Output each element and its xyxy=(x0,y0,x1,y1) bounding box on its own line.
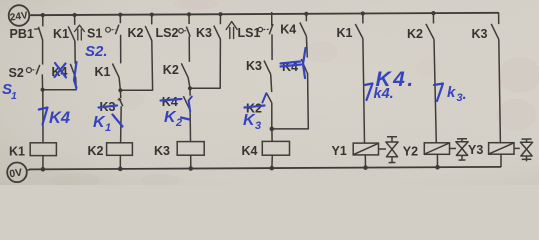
limit switch LS2 (NO) with actuator and label xyxy=(156,26,191,40)
svg-text:K4: K4 xyxy=(49,109,70,127)
relay contact K3 (crossed out, NC tick) with label xyxy=(100,90,123,114)
svg-text:S2.: S2. xyxy=(85,43,108,60)
relay contact K4 (crossed out) with label xyxy=(52,64,76,79)
node M2 (junction rung2 hold) xyxy=(118,88,122,92)
svg-text:LS2: LS2 xyxy=(156,26,179,40)
svg-text:K4: K4 xyxy=(162,95,178,109)
wire K2 coil to bottom rail xyxy=(119,155,121,168)
handwritten contact k4 (blue) in Y1 rung xyxy=(365,84,394,103)
wire Y2 solenoid to bottom rail xyxy=(436,154,438,167)
svg-text:K4: K4 xyxy=(242,144,258,158)
relay contact K4 (crossed out) in rung 3 with label xyxy=(162,88,190,110)
wire K3 coil to bottom rail xyxy=(190,155,192,168)
relay contact K3 (NO, self-hold) with label xyxy=(196,26,220,40)
blue strike through label K4 (rung 3) xyxy=(161,99,182,101)
node B1 (bottom rail junction x=43) xyxy=(41,167,46,172)
wire rail end down to K3 contact (Y3 rung) xyxy=(497,13,499,24)
wire K4 crossed to M1 corner xyxy=(44,78,76,90)
svg-text:K2: K2 xyxy=(407,27,423,41)
wire K2 hold to M2 corner xyxy=(122,41,153,91)
handwritten note K2 (blue) rung 3 xyxy=(164,109,190,129)
svg-text:Y1: Y1 xyxy=(332,144,347,158)
blue stroke over crossed K4 contact (rung 3) xyxy=(189,97,192,112)
wire rail to PB1 xyxy=(42,14,44,26)
wire K2 to Y2 solenoid xyxy=(434,39,436,142)
relay contact K1 (NO, self-hold) with label xyxy=(53,26,75,41)
wire rail to contact K1 (hold) xyxy=(74,14,76,25)
wire K1 to node M2 xyxy=(119,78,120,91)
solenoid coil Y1 with label xyxy=(332,143,379,158)
wire rail to LS2 xyxy=(188,14,190,24)
wire rail to K1 contact (Y1 rung) xyxy=(362,13,364,24)
handwritten contact K4 (blue) in rung 1 xyxy=(39,108,70,128)
wire rail to contact K3 (hold) xyxy=(219,14,221,25)
wire Y3 solenoid to valve symbol xyxy=(514,147,520,149)
svg-text:K1: K1 xyxy=(337,26,353,40)
wire K1 coil to bottom rail xyxy=(42,156,44,169)
relay contact K3 (NO) in Y3 rung with label xyxy=(472,24,499,41)
relay contact K1 (NO) in Y1 rung with label xyxy=(337,24,363,40)
svg-text:S2: S2 xyxy=(9,66,24,80)
relay contact K2 (NO) in rung 3 with label xyxy=(163,63,188,77)
node T7 (top rail junction x=306) xyxy=(304,12,308,16)
top power rail (24V bus) xyxy=(31,13,498,15)
svg-text:2: 2 xyxy=(175,117,182,129)
wire crossed K3 to K2 coil xyxy=(120,106,123,142)
wire Y1 solenoid to valve symbol xyxy=(379,148,387,150)
wire K3 to crossed K2 contact xyxy=(271,74,272,92)
svg-text:K3: K3 xyxy=(154,144,170,158)
wire rail to S1 xyxy=(119,14,121,23)
svg-text:.: . xyxy=(463,86,467,103)
svg-text:0V: 0V xyxy=(9,167,23,181)
blue stroke over K4 hold contact xyxy=(303,48,306,78)
wire LS2 to K2 contact xyxy=(188,36,190,62)
svg-text:K1: K1 xyxy=(53,27,69,41)
svg-text:1: 1 xyxy=(105,122,111,134)
svg-text:3: 3 xyxy=(255,120,261,132)
wire PB1 to S2 xyxy=(42,39,44,64)
wire K4 hold to crossed K4 xyxy=(305,36,308,57)
blue strike through label K3 (rung 2) xyxy=(99,106,118,108)
wire Y1 solenoid to bottom rail xyxy=(364,155,366,168)
limit switch LS1 (NO) with actuator and label xyxy=(238,24,274,40)
wire K3 to Y3 solenoid xyxy=(499,39,501,142)
blue stroke over K4 contact (rung1 hold) xyxy=(74,62,77,88)
svg-text:K1: K1 xyxy=(9,144,25,158)
svg-text:K2: K2 xyxy=(163,63,179,77)
node T6 (top rail junction x=220) xyxy=(218,12,222,16)
svg-text:1: 1 xyxy=(11,90,17,102)
relay contact K4 (crossed out, duplicated) with label xyxy=(282,59,308,74)
node B3 (bottom rail junction x=191) xyxy=(189,166,194,171)
bottom power rail (0V bus) xyxy=(29,167,501,170)
svg-text:K2: K2 xyxy=(88,144,104,158)
wire M1 to K1 coil (with hand-drawn K4 contact area) xyxy=(42,90,44,143)
paper background xyxy=(0,0,539,185)
svg-text:S1: S1 xyxy=(87,27,102,41)
relay coil K1 with label xyxy=(9,143,56,159)
handwritten contact k3 (blue) in Y2 rung xyxy=(434,84,467,105)
relay coil K3 with label xyxy=(154,142,204,158)
solenoid coil Y2 with label xyxy=(403,143,450,159)
node T8 (top rail junction x=363) xyxy=(361,11,365,15)
pneumatic valve symbol V2 xyxy=(456,139,468,160)
blue tick near crossed K2 contact (rung 4) xyxy=(262,94,266,103)
up-arrow actuator mark of S1 xyxy=(75,25,85,40)
relay contact K2 (NO) in Y2 rung with label xyxy=(407,24,434,41)
handwritten note S1 (blue) under S2 label xyxy=(2,81,17,102)
node B6 (bottom rail junction x=438) xyxy=(435,165,440,170)
handwritten note K1 (blue) rung 2 xyxy=(93,114,123,134)
node T5 (top rail junction x=189) xyxy=(187,12,191,16)
relay contact K3 (NO) in rung 4 with label xyxy=(246,59,271,74)
wire Y2 solenoid to valve symbol xyxy=(450,148,457,150)
up-arrow actuator mark of LS1 xyxy=(226,22,237,39)
node B2 (bottom rail junction x=120) xyxy=(118,167,123,172)
relay coil K4 with label xyxy=(242,141,290,158)
wire K1 to Y1 solenoid xyxy=(363,39,365,143)
wire M4 to K4 coil xyxy=(271,129,273,141)
wire rail to contact K2 (hold) xyxy=(151,14,153,25)
svg-text:LS1: LS1 xyxy=(238,26,261,40)
limit/roller switch S2 (NO) with actuator and label xyxy=(9,65,40,80)
svg-text:K2: K2 xyxy=(128,26,144,40)
wire rail to contact K4 (hold) xyxy=(305,13,307,21)
svg-text:K3: K3 xyxy=(246,59,262,73)
node T9 (top rail junction x=433) xyxy=(431,11,435,15)
wire K1 hold to K4 crossed contact xyxy=(74,41,76,64)
node B4 (bottom rail junction x=272) xyxy=(270,166,275,171)
limit switch S1 (NO) with actuator and label xyxy=(87,25,119,41)
wire K3 hold to M3 corner xyxy=(191,39,220,88)
svg-text:k4.: k4. xyxy=(374,86,394,102)
node T4 (top rail junction x=152) xyxy=(150,13,154,17)
wire crossed K4 to K3 coil xyxy=(189,110,191,142)
relay coil K2 with label xyxy=(88,143,133,158)
blue strike through label K2 (rung 4) xyxy=(245,106,265,108)
svg-text:K4: K4 xyxy=(280,23,296,37)
node M1 (junction of PB1 branch and K1 hold branch) xyxy=(41,88,45,92)
wire S1 to K1 contact xyxy=(120,35,122,64)
terminal 0V xyxy=(7,163,31,183)
wire rail to K2 contact (Y2 rung) xyxy=(432,13,434,24)
wire crossed K2 to node M4 xyxy=(271,103,273,129)
svg-text:Y2: Y2 xyxy=(403,145,418,159)
pneumatic valve symbol V3 xyxy=(520,139,532,161)
relay contact K2 (NO, self-hold) with label xyxy=(128,26,152,41)
pneumatic valve symbol V1 xyxy=(386,137,398,163)
wire Y3 solenoid to bottom rail xyxy=(500,154,502,167)
handwritten note K3 (blue) rung 4 xyxy=(243,112,261,132)
node B5 (bottom rail junction x=366) xyxy=(363,165,368,170)
wire K4 coil to bottom rail xyxy=(271,155,273,168)
svg-text:k: k xyxy=(447,84,456,101)
wire LS1 to K3 contact xyxy=(271,34,273,60)
svg-text:K3: K3 xyxy=(472,27,488,41)
node T3 (top rail junction x=120) xyxy=(118,13,122,17)
wire rail to LS1 xyxy=(271,12,273,26)
node M3 (junction rung3 hold) xyxy=(188,86,192,90)
wire crossed K4 to M4 corner xyxy=(273,74,308,129)
blue strike through label K4 duplicated (rung 4 hold) xyxy=(281,65,302,67)
solenoid coil Y3 with label xyxy=(468,143,514,158)
pushbutton PB1 (NC) with label xyxy=(10,27,43,41)
svg-text:K3: K3 xyxy=(196,26,212,40)
svg-text:K1: K1 xyxy=(95,65,111,79)
relay contact K2 (crossed out) in rung 4 with label xyxy=(246,93,272,116)
node M4 (junction rung4 hold) xyxy=(270,127,275,132)
svg-text:Y3: Y3 xyxy=(468,143,483,157)
relay contact K4 (NO, self-hold) with label xyxy=(280,23,306,37)
svg-text:PB1: PB1 xyxy=(10,27,34,41)
node T1 (top rail junction x=43) xyxy=(41,13,45,17)
wire K2 to node M3 xyxy=(188,77,190,88)
relay contact K1 (NO) in rung 2 with label xyxy=(95,64,120,80)
node T2 (top rail junction x=75) xyxy=(73,13,77,17)
supply terminal 24V xyxy=(9,5,33,26)
wire S2 to node M1 xyxy=(41,74,43,90)
blue cross over contact label K4 (rung1 hold) xyxy=(55,63,66,78)
